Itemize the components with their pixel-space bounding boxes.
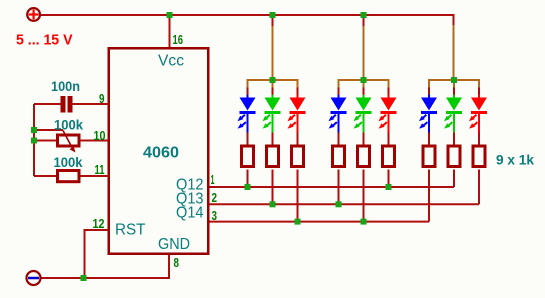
resistor R11 1k bbox=[473, 146, 485, 167]
svg-text:GND: GND bbox=[158, 236, 190, 253]
resistor R9 1k bbox=[423, 146, 435, 167]
resistor R8 1k bbox=[383, 146, 395, 167]
svg-text:4060: 4060 bbox=[143, 145, 179, 162]
junction Q14 green2 bbox=[361, 219, 367, 225]
svg-text:8: 8 bbox=[174, 255, 180, 270]
wire resistor 100k pin11 bbox=[34, 175, 108, 177]
junction Q13 blue2 bbox=[336, 201, 342, 207]
wire group2 top bar (highlighted) bbox=[339, 26, 389, 88]
wire pot wiper feedback bbox=[34, 129, 63, 131]
capacitor C1 100n bbox=[61, 96, 66, 113]
wire left rail bbox=[33, 104, 35, 176]
resistor R6 1k bbox=[333, 146, 345, 167]
junction ground wire bbox=[81, 275, 87, 281]
svg-text:2: 2 bbox=[212, 190, 218, 205]
LED D4 blue bbox=[329, 95, 347, 133]
supply terminal minus bbox=[27, 271, 41, 285]
svg-text:12: 12 bbox=[93, 216, 105, 231]
wire group3 top bar (highlighted) bbox=[429, 25, 479, 88]
junction group3 bar bbox=[451, 77, 457, 83]
junction top bus group2 bbox=[361, 12, 367, 18]
junction Q12 blue1 bbox=[245, 184, 251, 190]
wire Q12 net bbox=[210, 170, 455, 188]
svg-text:16: 16 bbox=[173, 32, 184, 47]
svg-text:100n: 100n bbox=[51, 78, 80, 94]
junction top bus group1 bbox=[270, 12, 276, 18]
wire RST pin12 bbox=[85, 230, 108, 278]
wire capacitor net pin9 bbox=[34, 103, 108, 105]
junction rail wiper bbox=[31, 127, 37, 133]
wire LED cathode to resistor stubs bbox=[248, 133, 480, 147]
resistor R2 100k bbox=[58, 171, 80, 182]
svg-text:Vcc: Vcc bbox=[158, 52, 184, 69]
junction Q14 red1 bbox=[295, 219, 301, 225]
resistor R3 1k bbox=[242, 146, 254, 167]
svg-text:100k: 100k bbox=[54, 154, 83, 170]
svg-text:1: 1 bbox=[211, 172, 215, 187]
wire group1 drop bbox=[272, 15, 274, 80]
wire group1 top bar bbox=[248, 79, 298, 81]
wire Vcc stub pin16 bbox=[169, 15, 171, 47]
junction top bus at Vcc bbox=[167, 12, 173, 18]
LED D8 green bbox=[444, 95, 462, 133]
svg-text:3: 3 bbox=[212, 208, 218, 223]
LED D6 red bbox=[379, 95, 397, 133]
LED D7 blue bbox=[419, 95, 437, 133]
wire LED anode stubs bbox=[248, 80, 480, 98]
junction group1 bar bbox=[270, 77, 276, 83]
junction Q12 red2 bbox=[386, 184, 392, 190]
svg-text:9 x 1k: 9 x 1k bbox=[496, 152, 534, 168]
LED D1 blue bbox=[238, 95, 256, 133]
supply terminal plus bbox=[27, 8, 40, 21]
LED D2 green bbox=[263, 95, 281, 133]
wire group2 drop bbox=[363, 15, 365, 80]
wire group3 top bar bbox=[429, 79, 479, 81]
svg-text:100k: 100k bbox=[54, 117, 83, 133]
svg-text:RST: RST bbox=[115, 222, 146, 239]
svg-text:11: 11 bbox=[95, 162, 105, 177]
resistor R10 1k bbox=[448, 146, 460, 167]
junction Q13 green1 bbox=[270, 201, 276, 207]
wire ground bottom bbox=[42, 255, 170, 278]
wire group1 top bar (highlighted) bbox=[248, 26, 298, 88]
wire Q14 net bbox=[210, 170, 430, 222]
wire top supply bus bbox=[41, 15, 454, 80]
resistor R4 1k bbox=[267, 146, 279, 167]
svg-text:10: 10 bbox=[94, 128, 106, 143]
wire Q13 net bbox=[210, 170, 480, 205]
LED D3 red bbox=[288, 95, 306, 133]
svg-text:9: 9 bbox=[99, 91, 105, 106]
junction rail pot bbox=[31, 138, 37, 144]
resistor R5 1k bbox=[292, 146, 304, 167]
potentiometer R1 100k bbox=[58, 135, 80, 146]
svg-text:Q14: Q14 bbox=[176, 205, 204, 222]
wire group2 top bar bbox=[339, 79, 389, 81]
wire pot terminals pin10 bbox=[34, 140, 108, 142]
svg-text:5 ... 15 V: 5 ... 15 V bbox=[16, 31, 73, 48]
junction group2 bar bbox=[361, 77, 367, 83]
IC U1 4060 body bbox=[109, 48, 209, 254]
resistor R7 1k bbox=[358, 146, 370, 167]
LED D5 green bbox=[354, 95, 372, 133]
LED D9 red bbox=[469, 95, 487, 133]
